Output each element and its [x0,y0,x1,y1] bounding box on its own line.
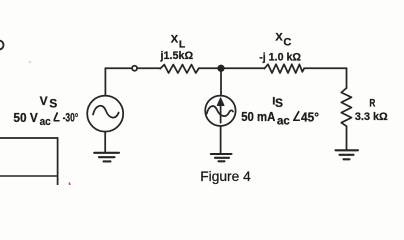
label IS [272,95,283,110]
wire: node to XC [221,67,265,69]
subscript ac (VS) [40,116,51,129]
IS arrow shaft [220,101,222,123]
angle symbol (IS) [294,111,300,120]
svg-text:ac: ac [40,116,51,129]
value -j 1.0 kOhm [259,51,301,63]
inductor XL zigzag [160,65,198,73]
svg-text:j1.5kΩ: j1.5kΩ [160,50,194,62]
wire: IS to ground [220,126,222,154]
node junction dot [218,66,224,72]
partial table box: right edge [57,138,59,186]
wire: XL to node [199,67,221,69]
ground under R [336,150,359,159]
wire: right vertical down to R [346,68,348,88]
IS sine wave [207,106,233,116]
value -30 deg [63,112,79,125]
VS sine wave [93,106,119,118]
svg-text:50 mA: 50 mA [241,110,275,125]
svg-text:-30°: -30° [63,112,79,125]
current source IS circle [205,96,235,126]
svg-text:50 V: 50 V [13,111,38,125]
svg-text:R: R [369,97,375,110]
label XL [171,34,186,51]
svg-text:3.3 kΩ: 3.3 kΩ [355,111,388,123]
capacitor XC zigzag [264,64,304,73]
svg-text:ac: ac [277,116,290,128]
label R [369,97,375,110]
value j1.5kOhm [160,50,194,62]
subscript ac (IS) [277,116,290,128]
resistor R zigzag [341,88,351,126]
wire: XC to right corner [304,67,346,69]
ground under IS [211,154,232,161]
source VS circle [87,96,123,132]
value 45 deg [301,110,319,124]
wire: node down to IS [220,68,222,96]
wire: VS to ground [104,132,106,153]
angle symbol (VS) [54,112,60,120]
partial table box bottom-left: top edge [0,137,58,139]
wire: Vs top vertical [104,68,106,96]
value 3.3 kOhm [355,111,388,123]
wire: R to ground [346,126,348,150]
faint pink speck [29,61,31,63]
svg-text:Figure 4: Figure 4 [200,168,251,184]
svg-text:45°: 45° [301,110,319,124]
partial table box: lower rule [0,175,58,177]
wire: top horizontal left of terminal [105,67,132,69]
label XC [275,32,291,49]
value 50 V [13,111,38,125]
svg-text:VS: VS [40,94,58,110]
terminal open circle [132,66,137,71]
svg-text:-j 1.0 kΩ: -j 1.0 kΩ [259,51,301,63]
wire: terminal to XL [137,67,160,69]
caption Figure 4 [200,168,251,184]
value 50 mA [241,110,275,125]
red pen tick bottom [68,183,71,186]
IS arrow head [217,98,224,106]
label VS [40,94,58,110]
ground under VS [94,153,119,162]
partial glyph o at left edge [0,41,4,50]
